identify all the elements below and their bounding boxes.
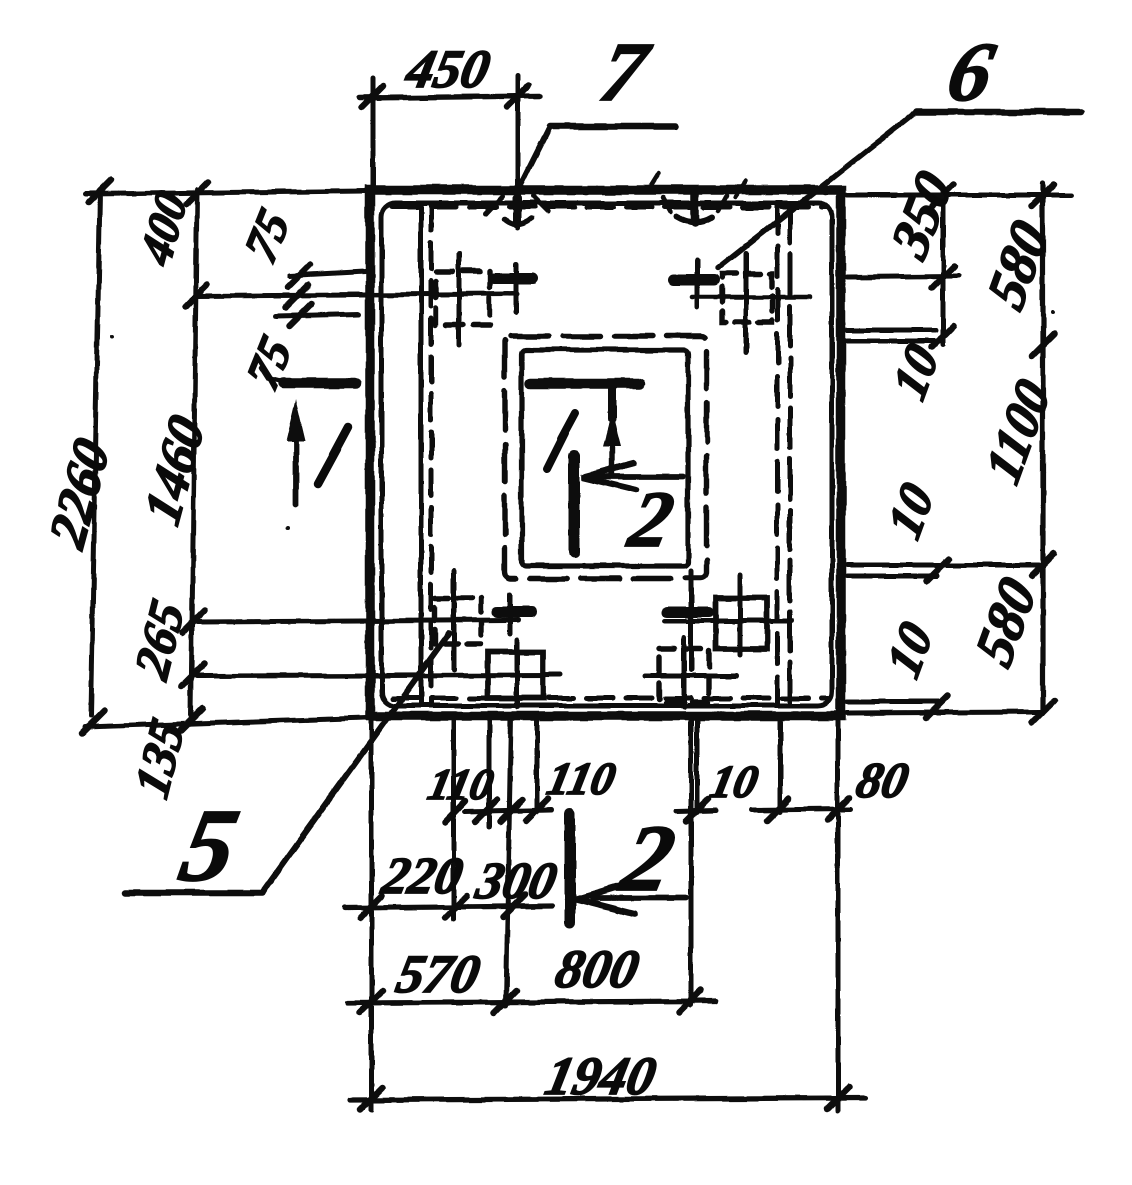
svg-text:2260: 2260 (38, 430, 120, 556)
svg-text:10: 10 (877, 474, 944, 547)
svg-text:5: 5 (171, 787, 248, 903)
svg-text:350: 350 (880, 161, 964, 269)
svg-text:800: 800 (550, 939, 644, 999)
svg-text:580: 580 (977, 211, 1061, 319)
svg-text:7: 7 (593, 26, 658, 119)
svg-text:10: 10 (876, 613, 943, 686)
svg-text:75: 75 (235, 200, 299, 271)
svg-text:220: 220 (376, 848, 467, 905)
svg-text:300: 300 (470, 853, 561, 910)
svg-text:110: 110 (543, 754, 620, 804)
svg-text:265: 265 (124, 592, 195, 687)
svg-text:2: 2 (612, 805, 684, 911)
svg-text:580: 580 (965, 568, 1049, 676)
svg-text:110: 110 (424, 759, 498, 808)
svg-text:570: 570 (391, 944, 485, 1004)
svg-text:10: 10 (706, 757, 763, 807)
svg-text:1940: 1940 (540, 1046, 661, 1106)
svg-text:6: 6 (940, 26, 1002, 119)
svg-text:450: 450 (400, 39, 495, 99)
svg-text:1100: 1100 (975, 370, 1061, 492)
svg-text:1460: 1460 (134, 407, 216, 533)
svg-text:400: 400 (131, 184, 198, 273)
svg-text:10: 10 (882, 335, 949, 408)
svg-text:80: 80 (852, 752, 914, 807)
